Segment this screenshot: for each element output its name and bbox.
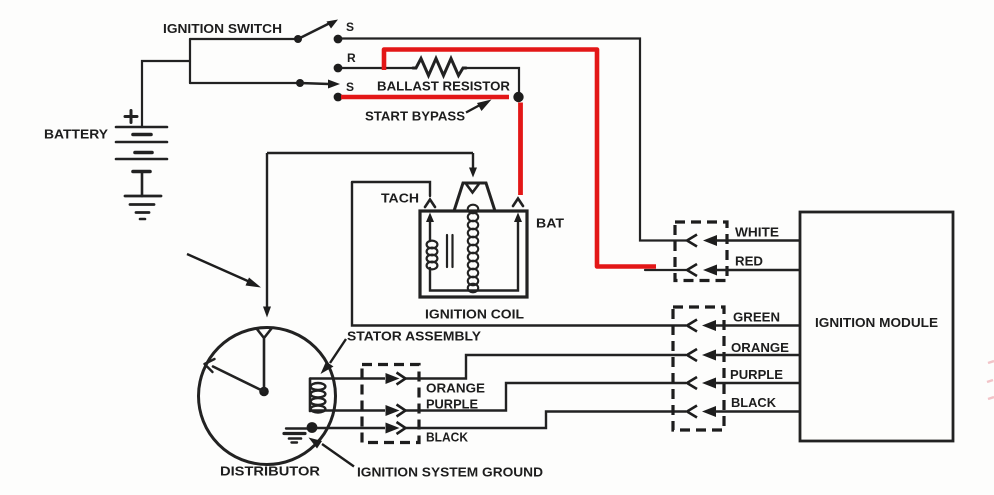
connector C1 pins row3 [386,422,406,434]
svg-text:BATTERY: BATTERY [44,128,109,142]
wire PURPLE to module [714,382,800,384]
connector C3 pins PURPLE row [687,377,716,389]
wire red junction to coil BAT terminal [518,103,523,196]
coil primary winding + internal arrows [426,213,522,291]
svg-text:TACH: TACH [381,192,419,206]
connector C3 pins ORANGE row [687,349,716,361]
wire R to ballast resistor [342,67,413,69]
wire C1 row1 to ORANGE row [406,355,687,379]
node terminal R [334,64,343,73]
node switch arm pivot lower [296,79,304,87]
wire battery-positive to switch common [142,39,190,127]
ground battery [125,196,161,219]
wire RED to module [715,269,800,271]
svg-text:S: S [346,80,354,94]
svg-text:IGNITION SWITCH: IGNITION SWITCH [163,22,282,36]
svg-text:IGNITION COIL: IGNITION COIL [425,308,524,322]
wire S-upper to module white (long top run) [342,39,686,241]
node switch arm pivot upper [294,35,302,43]
svg-text:WHITE: WHITE [735,226,779,240]
wire red-row stub to connector [645,269,686,271]
ignition coil U1 [420,183,527,297]
wire high-tension coil to distributor [263,153,477,318]
connector C1 stator (dashed) [362,365,419,443]
node terminal S upper [334,35,343,44]
wire ballast resistor to junction [466,68,519,93]
faint scan artifact marks right edge [987,361,994,399]
wire GREEN to module [714,324,800,326]
svg-text:BLACK: BLACK [426,431,468,445]
connector C2 pins RED row [687,264,717,276]
stator assembly pickup coil [310,379,325,413]
wire WHITE to module [715,239,800,241]
pointer arrow to distributor [187,254,261,288]
resistor ballast [413,59,466,76]
wire ground row3 to connector [316,427,385,429]
wire TACH feed [352,182,430,196]
node junction ballast output / bypass [513,92,523,102]
ignition switch arm upper [298,20,338,40]
connector C2 pins WHITE row [687,235,717,247]
pointer stator assembly [321,339,347,374]
svg-text:BLACK: BLACK [731,396,776,410]
connector C1 pins row2 [386,405,406,417]
connector C2 white/red (dashed) [675,222,727,281]
wire red R-terminal to module RED (long red run) [384,50,656,267]
ground distributor [284,429,307,443]
svg-text:R: R [347,51,356,65]
connector C3 pins GREEN row [687,320,716,332]
wire C1 row3 to BLACK row [406,412,687,429]
svg-text:PURPLE: PURPLE [426,398,478,412]
svg-text:S: S [346,20,354,34]
svg-text:IGNITION MODULE: IGNITION MODULE [815,315,938,330]
wire start-bypass (red) S-lower to junction [341,95,509,100]
distributor rotor [205,329,272,397]
pointer start-bypass arrow [466,100,492,113]
svg-text:ORANGE: ORANGE [426,382,485,396]
wire C1 row2 to PURPLE row [406,383,687,411]
wire ORANGE to module [714,354,800,356]
svg-text:BALLAST RESISTOR: BALLAST RESISTOR [377,80,510,94]
coil TACH terminal chevron [425,200,435,208]
coil secondary winding [468,205,478,293]
wire switch branch upper [190,38,296,40]
coil case [420,211,527,297]
svg-text:BAT: BAT [536,217,564,231]
node distributor ground [307,422,318,433]
connector C3 green/orange/purple/black (dashed) [673,307,724,430]
pointer ignition system ground [309,438,355,467]
svg-text:RED: RED [735,255,763,269]
wire stator row2 to connector [310,409,385,411]
wire coil-negative to module GREEN [352,182,686,326]
ignition switch arm lower (arrow to S) [300,80,340,89]
coil tower socket chevron [467,185,479,193]
battery BAT1 [116,111,167,197]
wire BLACK to module [714,410,800,412]
distributor body [199,328,336,465]
wire stator row1 to connector [310,377,385,379]
svg-text:STATOR ASSEMBLY: STATOR ASSEMBLY [347,330,482,344]
coil core lamination [447,235,453,267]
coil tower [454,183,495,211]
svg-text:IGNITION SYSTEM GROUND: IGNITION SYSTEM GROUND [357,466,543,480]
connector C3 pins BLACK row [687,406,716,418]
svg-text:ORANGE: ORANGE [731,341,789,355]
ignition module U2 [800,212,953,441]
svg-text:PURPLE: PURPLE [730,368,783,382]
svg-text:START BYPASS: START BYPASS [365,110,465,124]
node terminal S lower (start) [334,93,343,102]
coil BAT terminal chevron [513,199,523,207]
svg-text:DISTRIBUTOR: DISTRIBUTOR [220,465,320,479]
wire switch branch lower [190,82,298,84]
connector C1 pins row1 [386,373,406,385]
svg-text:GREEN: GREEN [733,311,780,325]
